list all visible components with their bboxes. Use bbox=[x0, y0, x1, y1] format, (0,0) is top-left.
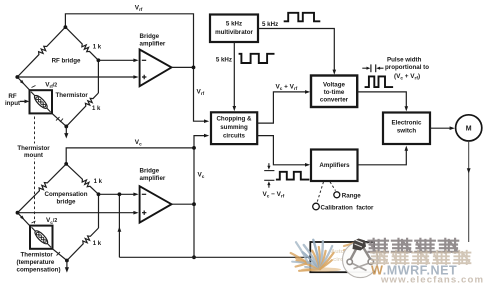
node bottom rail junction bbox=[192, 255, 196, 259]
label chopping block bbox=[216, 116, 252, 140]
wire feedback up to minus node bbox=[118, 194, 120, 257]
wire comp thermistor box to bottom vertex bbox=[53, 249, 67, 261]
svg-text:Compensation: Compensation bbox=[45, 191, 88, 198]
arrowhead into motor bbox=[450, 126, 455, 130]
block amplifiers bbox=[311, 150, 358, 182]
svg-text:bridge: bridge bbox=[57, 198, 76, 205]
label Vc + Vrf bbox=[276, 84, 298, 92]
op-amp U2 bridge amplifier bbox=[140, 186, 172, 222]
wire multivibrator right output bbox=[258, 29, 334, 72]
svg-text:1 k: 1 k bbox=[92, 106, 101, 112]
label Vrf top rail bbox=[135, 5, 143, 13]
wire multivibrator to chopping top bbox=[233, 42, 235, 108]
svg-text:summing: summing bbox=[220, 124, 248, 131]
svg-text:www.elecfans.com: www.elecfans.com bbox=[380, 275, 484, 286]
tick at comp bottom vertex lead bbox=[57, 252, 61, 256]
wire RF left vertex to thermistor box bbox=[17, 77, 30, 91]
svg-text:Calibration factor: Calibration factor bbox=[321, 205, 375, 212]
wire switch output to motor bbox=[430, 127, 451, 129]
waveform Vc minus Vrf bbox=[276, 172, 310, 180]
label Vc/2 bbox=[46, 217, 57, 225]
wire Vrf vertical down to chopping input corner bbox=[194, 67, 205, 121]
node RF bridge top vertex bbox=[64, 25, 68, 29]
arrowhead minus input U2 bbox=[133, 193, 138, 197]
svg-text:1 k: 1 k bbox=[93, 45, 102, 51]
wire comp right vertex vertical bbox=[98, 194, 100, 228]
svg-text:circuits: circuits bbox=[223, 132, 246, 139]
watermark text elecfans url bbox=[380, 275, 484, 286]
arrowhead plus input U1 bbox=[133, 75, 138, 79]
label electronic switch bbox=[392, 120, 422, 135]
wire chopping upper output to converter bbox=[257, 92, 306, 123]
label Vrf/2 bbox=[45, 82, 57, 90]
svg-text:5 kHz: 5 kHz bbox=[226, 21, 242, 28]
label pulse width proportional bbox=[385, 57, 429, 81]
label 1 k comp top-right bbox=[94, 179, 103, 185]
svg-text:Bridge: Bridge bbox=[140, 167, 160, 174]
block electronic switch bbox=[383, 113, 430, 145]
label Vc minus Vrf bbox=[263, 191, 285, 199]
svg-text:converter: converter bbox=[320, 97, 349, 104]
svg-text:Thermistor: Thermistor bbox=[56, 92, 89, 99]
arrowhead into switch bottom bbox=[405, 146, 409, 151]
wire chopping lower output to amplifiers bbox=[257, 136, 306, 165]
svg-text:Thermistor: Thermistor bbox=[17, 145, 50, 152]
wire amplifiers output to switch bottom bbox=[358, 149, 407, 165]
waveform pulse width bbox=[365, 76, 394, 87]
node Vc rail junction bbox=[192, 146, 196, 150]
dashed line thermistor mount bbox=[34, 117, 36, 224]
wire comp left vertex to thermistor box bbox=[18, 213, 31, 227]
node RF bridge right vertex bbox=[97, 58, 101, 62]
label Calibration factor bbox=[321, 205, 375, 212]
svg-text:compensation): compensation) bbox=[17, 267, 61, 274]
node U1 output junction bbox=[192, 66, 196, 70]
wire RF bridge left vertex to plus input bbox=[17, 76, 134, 78]
label 5 kHz right bbox=[262, 21, 278, 28]
wire Vc vertical down segment bbox=[193, 148, 195, 204]
arrowhead plus input U2 bbox=[133, 211, 138, 215]
node comp bridge left vertex bbox=[16, 211, 20, 215]
svg-text:to-time: to-time bbox=[324, 89, 345, 96]
tick at RF bottom vertex lead bbox=[56, 117, 63, 122]
arrowhead minus input U1 bbox=[133, 59, 138, 63]
arrowhead on comp left vertex lead bbox=[20, 216, 24, 220]
amplitude indicator bars bbox=[264, 163, 274, 188]
watermark compass pivots bbox=[347, 259, 373, 265]
svg-text:(temperature: (temperature bbox=[17, 259, 55, 266]
resistor R 1k comp bottom-right arm bbox=[67, 228, 99, 261]
svg-text:Voltage: Voltage bbox=[323, 82, 345, 89]
label Bridge amplifier U2 bbox=[140, 167, 166, 182]
label 1 k RF top-right bbox=[93, 45, 102, 51]
label Thermistor comp bbox=[17, 252, 61, 274]
block voltage to time converter bbox=[311, 76, 357, 108]
resistor RF bridge top-left arm bbox=[17, 27, 65, 77]
thermistor RT1 element bbox=[31, 92, 51, 112]
arrowhead into converter top bbox=[333, 70, 337, 75]
label Thermistor RF bbox=[56, 92, 89, 99]
svg-text:Thermistor: Thermistor bbox=[21, 252, 54, 259]
svg-text:amplifier: amplifier bbox=[140, 40, 166, 47]
arrowhead into converter left bbox=[305, 90, 310, 94]
wire RF thermistor box to bottom vertex bbox=[52, 113, 66, 126]
svg-text:5 kHz: 5 kHz bbox=[216, 57, 232, 64]
svg-text:multivibrator: multivibrator bbox=[215, 29, 253, 36]
svg-text:switch: switch bbox=[397, 127, 416, 134]
label RF bridge bbox=[52, 58, 81, 65]
wire comp left vertex to plus input bbox=[18, 212, 135, 214]
dashed link to calibration bbox=[317, 182, 324, 203]
label Bridge amplifier U1 bbox=[140, 33, 166, 48]
wire Vc node down to bottom rail bbox=[193, 204, 195, 257]
arrowhead into chopping top bbox=[233, 106, 237, 111]
watermark compass hinge bbox=[353, 239, 367, 251]
label converter block bbox=[320, 82, 349, 104]
label Vc rail bbox=[135, 139, 142, 147]
watermark text elecfans CJK row bbox=[371, 251, 470, 264]
resistor R 1k comp top-right arm bbox=[66, 164, 98, 194]
thermistor RT1 box bbox=[30, 90, 53, 113]
wire RF right vertex vertical bbox=[97, 60, 99, 93]
thermistor RT2 box bbox=[30, 226, 53, 249]
watermark text Tao She Pin Wang row bbox=[369, 239, 459, 253]
svg-text:Bridge: Bridge bbox=[140, 33, 160, 40]
wire top Vrf feedback rail bbox=[65, 14, 193, 68]
watermark rays bbox=[291, 240, 357, 272]
potentiometer Calibration factor bbox=[313, 203, 320, 210]
motor M bbox=[456, 115, 482, 141]
node comp bridge right vertex bbox=[97, 192, 101, 196]
block chopping and summing circuits bbox=[211, 112, 257, 144]
tick at comp thermistor top lead bbox=[32, 221, 36, 223]
label meter block faint bbox=[331, 249, 359, 263]
svg-text:RF bridge: RF bridge bbox=[52, 58, 81, 65]
pulse width indicator bbox=[362, 64, 383, 72]
svg-text:5 kHz: 5 kHz bbox=[262, 21, 278, 28]
arrowhead into chopping lower input bbox=[204, 134, 209, 138]
node RF bridge left vertex bbox=[15, 75, 19, 79]
block meter bottom bbox=[310, 242, 374, 272]
arrowhead into switch top bbox=[405, 106, 409, 111]
label RF input bbox=[5, 93, 20, 107]
label Vrf mid bbox=[197, 89, 205, 97]
label Vc mid bbox=[198, 172, 205, 180]
wire comp right vertex to minus input bbox=[99, 193, 135, 195]
label Range bbox=[342, 192, 361, 199]
node RF bridge bottom vertex bbox=[64, 125, 68, 129]
arrowhead into chopping upper input bbox=[204, 119, 209, 123]
label amplifiers bbox=[319, 162, 350, 169]
arrowhead motor line down bbox=[467, 168, 471, 173]
label multivibrator block bbox=[215, 21, 253, 37]
watermark compass legs bbox=[351, 245, 371, 271]
tick at RF thermistor top lead bbox=[32, 86, 36, 88]
arrow RF input bbox=[20, 100, 29, 104]
svg-text:Pulse width: Pulse width bbox=[387, 57, 422, 64]
label 1 k RF bottom-right bbox=[92, 106, 101, 112]
watermark logo circle bbox=[343, 242, 379, 278]
svg-text:1 k: 1 k bbox=[93, 241, 102, 247]
arrowhead on RF left vertex lead bbox=[20, 80, 24, 84]
wire RF bridge right vertex to minus input bbox=[98, 59, 134, 61]
svg-text:Electronic: Electronic bbox=[392, 120, 422, 127]
wire converter output to switch top bbox=[357, 92, 406, 108]
label Thermistor mount bbox=[13, 144, 55, 160]
watermark text MWRF bbox=[371, 264, 457, 278]
wire motor down bbox=[468, 141, 470, 242]
node comp bridge top vertex bbox=[64, 162, 68, 166]
svg-text:Amplifiers: Amplifiers bbox=[319, 162, 350, 169]
resistor R 1k RF bottom-right arm bbox=[66, 93, 98, 126]
wire Vc vertical to chopping lower input bbox=[194, 136, 205, 148]
svg-text:mount: mount bbox=[24, 152, 43, 159]
waveform 5kHz square wave mid bbox=[239, 54, 275, 63]
svg-text:Range: Range bbox=[342, 192, 361, 199]
wire U1 output to Vrf node bbox=[172, 66, 194, 68]
label Compensation bridge bbox=[45, 191, 88, 205]
arrowhead into amplifiers left bbox=[305, 163, 310, 167]
waveform 5kHz square wave top bbox=[284, 13, 321, 21]
svg-text:Chopping &: Chopping & bbox=[216, 116, 252, 123]
ground arrow below comp bridge bbox=[65, 261, 69, 273]
wire Vc rail bbox=[66, 148, 194, 164]
arrowhead feedback up bbox=[118, 227, 122, 232]
label 1 k comp bottom-right bbox=[93, 241, 102, 247]
ground arrow below RF bridge bbox=[64, 126, 68, 138]
wire bottom rail bbox=[119, 256, 310, 258]
svg-text:M: M bbox=[466, 126, 472, 133]
resistor comp bridge top-left arm bbox=[18, 164, 67, 213]
svg-text:proportional to: proportional to bbox=[385, 64, 429, 71]
label 5 kHz left of line bbox=[216, 57, 232, 64]
op-amp U1 bridge amplifier bbox=[140, 50, 172, 87]
potentiometer Range bbox=[334, 192, 340, 198]
node feedback junction on minus line bbox=[118, 192, 122, 196]
thermistor RT2 element bbox=[32, 227, 52, 247]
dashed link to range bbox=[330, 182, 336, 191]
resistor R 1k RF top-right arm bbox=[65, 27, 98, 60]
svg-text:amplifier: amplifier bbox=[140, 175, 166, 182]
svg-text:1 k: 1 k bbox=[94, 179, 103, 185]
svg-text:input: input bbox=[5, 100, 20, 107]
block 5 kHz multivibrator bbox=[210, 15, 258, 43]
node comp bridge bottom vertex bbox=[65, 259, 69, 263]
node U2 output junction bbox=[192, 202, 196, 206]
wire U2 output to Vc node bbox=[172, 203, 195, 205]
